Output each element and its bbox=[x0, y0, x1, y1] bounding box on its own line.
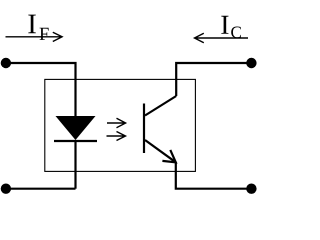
wire emitter to bottom-right terminal bbox=[176, 162, 252, 188]
optocoupler package box bbox=[45, 79, 196, 171]
label IF: subscript F bbox=[40, 28, 49, 40]
label IC: subscript C bbox=[231, 27, 241, 38]
terminal emitter (bottom-right) bbox=[246, 184, 256, 194]
transistor Q1 emitter arrowhead bbox=[162, 150, 175, 162]
LED D1 cathode bar bbox=[54, 140, 97, 142]
wire LED cathode down bbox=[74, 141, 76, 189]
transistor Q1 emitter lead bbox=[145, 140, 176, 162]
label IC: letter I bbox=[221, 16, 228, 34]
arrow for IF current direction (right) bbox=[6, 32, 63, 41]
light arrow 2 bbox=[107, 132, 126, 141]
light arrow 1 bbox=[107, 118, 126, 127]
terminal collector (top-right) bbox=[246, 58, 256, 68]
arrow for IC current direction (left) bbox=[195, 33, 249, 42]
label IF: letter I bbox=[28, 15, 35, 34]
LED D1 triangle bbox=[56, 116, 96, 140]
terminal anode (top-left) bbox=[1, 58, 11, 68]
transistor Q1 collector lead bbox=[145, 96, 176, 116]
transistor Q1 base bar bbox=[143, 104, 145, 154]
terminal cathode (bottom-left) bbox=[1, 184, 11, 194]
wire collector terminal to transistor bbox=[176, 63, 251, 96]
wire anode terminal to LED bbox=[6, 63, 76, 117]
wire cathode terminal bbox=[6, 188, 76, 190]
